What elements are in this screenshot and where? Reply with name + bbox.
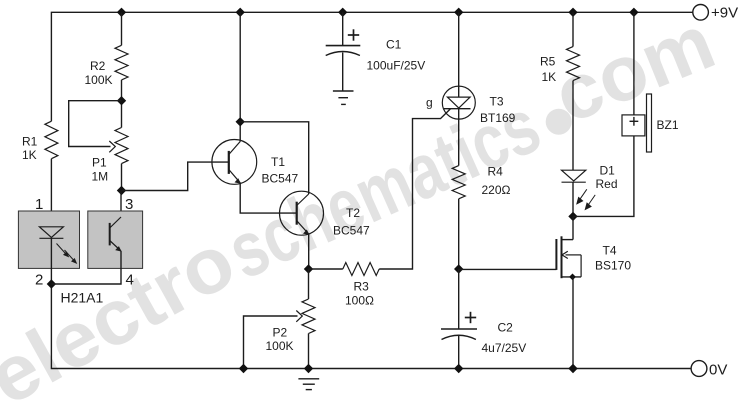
transistor T1 BC547 <box>212 140 257 185</box>
svg-text:BZ1: BZ1 <box>657 118 679 132</box>
node top rail T3 <box>454 8 463 17</box>
svg-text:T1: T1 <box>271 155 285 169</box>
node pin2/pin4 <box>47 279 56 288</box>
wire pin2 <box>50 238 52 284</box>
wire +9V top rail <box>51 12 692 121</box>
svg-text:R3: R3 <box>354 280 370 294</box>
wire node to T1 base <box>122 162 229 190</box>
svg-text:4u7/25V: 4u7/25V <box>482 341 527 355</box>
svg-text:R2: R2 <box>90 59 106 73</box>
wire C1 to ground <box>342 53 344 92</box>
wire T4 source to 0V <box>572 277 574 369</box>
wire C2 to 0V <box>458 336 460 369</box>
svg-text:0V: 0V <box>709 362 727 379</box>
capacitor C2 <box>458 269 460 329</box>
node top rail C1 <box>338 8 347 17</box>
svg-text:C1: C1 <box>386 38 402 52</box>
svg-text:R4: R4 <box>488 165 504 179</box>
svg-text:R5: R5 <box>540 55 556 69</box>
wire rail to R2 <box>121 12 123 45</box>
svg-text:100K: 100K <box>266 339 294 353</box>
svg-text:T4: T4 <box>603 244 617 258</box>
node T4 source 0V <box>568 364 577 373</box>
wire T2 emitter to node <box>308 234 310 269</box>
thyristor T3 BT169 <box>442 86 475 119</box>
ground symbol below P2 <box>298 379 319 390</box>
LED D1 <box>562 170 586 181</box>
potentiometer P2 <box>308 269 310 299</box>
resistor R1 <box>45 121 58 159</box>
svg-text:C2: C2 <box>498 321 514 335</box>
svg-text:1K: 1K <box>22 148 37 162</box>
svg-text:220Ω: 220Ω <box>482 183 511 197</box>
wire node to R3 <box>309 268 343 270</box>
node P2 wiper 0V <box>239 364 248 373</box>
wire R2 to node <box>121 80 123 128</box>
svg-text:1: 1 <box>35 196 43 213</box>
resistor R3 <box>343 263 379 276</box>
node top rail R5 <box>568 8 577 17</box>
svg-text:2: 2 <box>35 272 43 289</box>
wire P2 bottom to 0V <box>308 334 310 369</box>
node C2 0V <box>454 364 463 373</box>
node R4/C2/T4 gate <box>454 264 463 273</box>
svg-text:BT169: BT169 <box>480 111 516 125</box>
wire R4 to node <box>458 199 460 269</box>
node P1/opto pin3 <box>117 186 126 195</box>
svg-text:P1: P1 <box>92 156 107 170</box>
node top rail BZ1 <box>629 8 638 17</box>
node R2/P1 <box>117 96 126 105</box>
resistor R4 <box>452 166 465 199</box>
capacitor C1 <box>342 12 344 45</box>
svg-text:T3: T3 <box>490 95 504 109</box>
resistor R2 <box>115 45 128 80</box>
svg-text:Red: Red <box>596 177 618 191</box>
svg-text:3: 3 <box>125 196 133 213</box>
svg-text:H21A1: H21A1 <box>61 290 104 306</box>
wire rail to T1 collector node <box>239 12 241 141</box>
node D1/BZ1/T4 drain <box>568 212 577 221</box>
svg-text:BC547: BC547 <box>333 224 370 238</box>
wire node to opto pin3 <box>120 191 122 217</box>
svg-text:+9V: +9V <box>711 5 738 22</box>
opto LED arrows <box>57 244 77 264</box>
buzzer BZ1 <box>622 115 645 136</box>
svg-text:100K: 100K <box>85 73 113 87</box>
wire pin4 <box>51 251 121 284</box>
svg-text:R1: R1 <box>22 135 38 149</box>
terminal 0V <box>691 361 707 377</box>
svg-text:100Ω: 100Ω <box>345 294 374 308</box>
svg-text:BS170: BS170 <box>595 259 631 273</box>
wire T1 emitter to T2 base <box>240 183 297 213</box>
svg-text:BC547: BC547 <box>262 172 299 186</box>
svg-text:P2: P2 <box>273 326 288 340</box>
wire rail to T3 anode <box>458 12 460 97</box>
wire rail to R5 <box>572 12 574 46</box>
node T1 collector / T2 collector branch <box>236 117 245 126</box>
wire P1 to node <box>121 164 123 191</box>
resistor R5 <box>567 47 580 81</box>
ground symbol C1 <box>333 91 354 104</box>
potentiometer P1 <box>115 128 128 164</box>
terminal +9V <box>693 5 709 21</box>
optocoupler H21A1 transistor box <box>88 211 143 268</box>
mosfet T4 BS170 <box>556 216 581 278</box>
node P2 bottom 0V <box>304 364 313 373</box>
transistor T2 BC547 <box>280 191 324 235</box>
svg-text:T2: T2 <box>346 206 360 220</box>
node top rail T1 <box>236 8 245 17</box>
wire D1 to node <box>572 182 574 216</box>
opto LED <box>39 227 63 238</box>
wire node to T4 gate <box>459 268 557 270</box>
P2 wiper arrow <box>296 311 302 322</box>
wire R3 to T3 gate <box>379 109 450 269</box>
svg-text:g: g <box>426 96 433 110</box>
optocoupler H21A1 LED box <box>18 211 79 268</box>
wire BZ1 to node <box>573 136 634 217</box>
svg-text:100uF/25V: 100uF/25V <box>367 59 426 73</box>
potentiometer P1 wiper arrow <box>109 141 115 152</box>
wire T3 cathode to R4 <box>458 109 460 166</box>
node T2 emitter / R3 / P2 <box>304 264 313 273</box>
svg-text:1M: 1M <box>92 170 109 184</box>
svg-text:1K: 1K <box>542 70 557 84</box>
wire R1 to opto pin1 <box>50 159 52 227</box>
wire branch to T2 collector <box>240 122 309 194</box>
opto phototransistor <box>109 223 111 246</box>
D1 arrows <box>577 189 595 209</box>
wire R5 to D1 <box>572 81 574 171</box>
wire rail to BZ1 <box>633 12 635 115</box>
wire P2 wiper to 0V <box>244 316 298 369</box>
wire 0V bottom rail <box>51 284 691 369</box>
svg-text:D1: D1 <box>600 164 616 178</box>
wire node to P1 wiper <box>69 101 122 147</box>
svg-text:4: 4 <box>126 272 134 289</box>
node top rail R2 <box>117 8 126 17</box>
